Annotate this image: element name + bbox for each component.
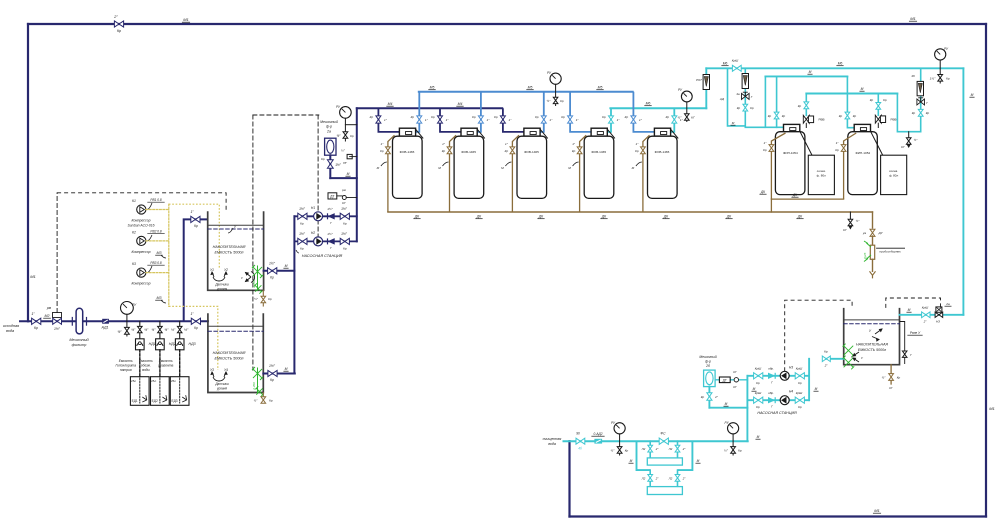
svg-text:НЗ: НЗ — [936, 320, 940, 324]
svg-text:Кр: Кр — [505, 149, 509, 153]
svg-text:Кр: Кр — [560, 99, 564, 103]
svg-text:воды: воды — [142, 368, 150, 372]
valve on rinse branch — [918, 109, 923, 116]
dashed automation pumps drop — [317, 115, 319, 241]
svg-text:М1: М1 — [30, 274, 36, 279]
svg-text:К1: К1 — [132, 199, 136, 203]
filter tank T4 riser diagonal — [607, 129, 614, 138]
svg-text:солев.: солев. — [817, 169, 826, 173]
tank C inlet valve — [822, 356, 830, 362]
valve on rotameter R2 branch — [743, 104, 748, 111]
filter tank T4 body — [584, 136, 614, 198]
level sensors tank C — [872, 329, 882, 341]
svg-text:КрШ: КрШ — [755, 391, 762, 395]
bag filter F2b outlet valve — [708, 387, 710, 408]
svg-text:К3: К3 — [132, 262, 136, 266]
svg-text:Мешочный: Мешочный — [699, 355, 716, 359]
label pump station 1 — [296, 250, 299, 253]
svg-text:очищенная: очищенная — [543, 437, 562, 441]
drain valve on cyan manifold gauge stem — [685, 114, 690, 120]
cyan outlet manifold — [610, 107, 706, 109]
svg-text:Кр: Кр — [270, 276, 274, 280]
filter tank T5 riser diagonal — [671, 129, 678, 138]
black arrow sensor tank A outlet — [246, 272, 255, 283]
tank C outlet line to softened header — [900, 314, 964, 316]
pump branch H1 pipe — [294, 215, 356, 217]
svg-text:КГ: КГ — [889, 386, 893, 390]
bag filter F1 capsule — [76, 308, 83, 334]
svg-text:Емкость: Емкость — [119, 359, 133, 363]
svg-text:ФИП-1054: ФИП-1054 — [783, 151, 798, 155]
storage tank A water level — [208, 224, 264, 226]
svg-text:У4: У4 — [224, 368, 228, 372]
filter tank T4 right feed drop — [607, 108, 611, 132]
svg-text:М: М — [347, 172, 350, 176]
svg-text:Н1: Н1 — [311, 206, 315, 210]
valved drop to softener S1 inlet — [776, 76, 778, 127]
softener drain collector brown — [771, 198, 843, 200]
dosing suction dashed line ND1 — [139, 350, 141, 377]
pump station 1 discharge header — [356, 108, 358, 241]
svg-text:SunSun ACO-016: SunSun ACO-016 — [127, 224, 154, 228]
valve on softener S2 inlet drop — [845, 112, 850, 119]
svg-text:КГ: КГ — [901, 145, 905, 149]
filter tank T2 riser diagonal — [477, 129, 484, 138]
svg-text:Кр: Кр — [926, 111, 930, 115]
svg-text:Кр: Кр — [431, 115, 435, 119]
svg-text:Кр: Кр — [870, 98, 874, 102]
drain valve on rinse line — [908, 132, 910, 138]
svg-text:Кр: Кр — [782, 114, 786, 118]
storage tank B walls — [208, 313, 263, 392]
svg-text:Кр: Кр — [635, 149, 639, 153]
UV bypass left drop — [637, 441, 651, 470]
softener S1 drain valve — [769, 145, 774, 152]
valve under gauge discharge header — [343, 132, 348, 139]
pressure gauge PI1 on main line — [121, 302, 134, 315]
svg-text:КГ: КГ — [691, 116, 695, 120]
svg-text:1½": 1½" — [341, 232, 348, 236]
flow sensor AD2 — [595, 439, 602, 443]
svg-text:Кр: Кр — [561, 115, 565, 119]
filter tank T3 right feed drop — [540, 92, 544, 132]
svg-text:Кр: Кр — [270, 378, 274, 382]
air line to tank A yellow dotted — [169, 204, 220, 268]
flow sensor AD1 on main line — [103, 319, 109, 323]
pump branch H1 check valve — [328, 213, 335, 219]
svg-text:рм: рм — [341, 188, 346, 192]
storage tank A walls — [208, 211, 264, 290]
UV bypass right drop — [678, 441, 693, 470]
UV1 inlet valve — [649, 441, 651, 458]
drain manifold right drop — [872, 212, 874, 228]
bag filter F2a outlet valve — [329, 155, 331, 178]
label M3 leader on riser — [161, 300, 166, 303]
svg-text:Н4: Н4 — [789, 390, 793, 394]
pump branch H2 suction valve — [298, 238, 307, 244]
bypass drop left of R2 — [728, 68, 746, 126]
svg-text:У1: У1 — [210, 268, 214, 272]
svg-text:Кр: Кр — [839, 114, 843, 118]
valve V1 raw water — [32, 318, 41, 324]
filter tank T2 right feed drop — [477, 92, 481, 132]
filter tank T1 left feed drop — [378, 108, 399, 132]
flow transmitter DT1 — [328, 193, 337, 199]
pump H2 — [314, 237, 323, 246]
svg-text:М: М — [568, 166, 571, 170]
pressure gauge on discharge header — [340, 107, 352, 119]
treated water valve — [576, 438, 585, 444]
softener S1 drain brown — [771, 133, 785, 199]
svg-text:НД3: НД3 — [189, 342, 196, 346]
storage tank C water level — [844, 319, 900, 321]
UV sterilizer unit 1 — [647, 458, 682, 465]
filter tank T1 left feed valve — [376, 116, 381, 123]
svg-text:М4: М4 — [388, 102, 393, 106]
storage tank C walls — [844, 308, 900, 365]
svg-text:М: М — [725, 402, 728, 406]
svg-text:ФОВ-1465: ФОВ-1465 — [461, 150, 476, 154]
svg-text:Кр: Кр — [572, 149, 576, 153]
svg-text:4а: 4а — [736, 92, 740, 96]
wire bypass top horizontal — [28, 23, 986, 25]
svg-text:НД1: НД1 — [149, 342, 156, 346]
svg-text:Кр: Кр — [34, 326, 38, 330]
svg-text:КрШ: КрШ — [732, 59, 739, 63]
svg-text:Компрессор: Компрессор — [132, 219, 151, 223]
svg-text:Кр: Кр — [535, 115, 539, 119]
filter tank T4 control head — [591, 128, 607, 136]
level switch sensor tank B — [211, 372, 227, 381]
filter tank T4 right feed valve — [609, 116, 614, 123]
filter tank T5 drain valve brown — [641, 147, 646, 154]
svg-text:ЕМКОСТЬ 5000л: ЕМКОСТЬ 5000л — [858, 348, 886, 352]
svg-text:Кр: Кр — [194, 224, 198, 228]
svg-text:1½": 1½" — [327, 232, 333, 236]
svg-text:4б: 4б — [578, 447, 582, 451]
pump station 2 suction header — [808, 359, 810, 400]
air header yellow dotted — [168, 204, 170, 306]
drain sampling valve brown — [870, 229, 875, 236]
svg-text:обезж.: обезж. — [141, 364, 151, 368]
svg-text:АД: АД — [719, 97, 725, 101]
air line K2 to tank B yellow dotted — [169, 306, 218, 370]
svg-text:КГ: КГ — [342, 201, 346, 205]
wire bypass right vertical — [985, 24, 987, 517]
svg-text:Кр: Кр — [625, 449, 629, 453]
svg-text:ЕД3: ЕД3 — [171, 399, 177, 403]
tank A drain valve brown — [262, 290, 264, 296]
svg-text:Гипохлорита: Гипохлорита — [115, 364, 136, 368]
filter tank T2 left feed valve — [438, 116, 443, 123]
compressor K2 — [137, 236, 146, 245]
softener S2 drain brown — [844, 133, 857, 199]
tank B outlet pipe — [263, 373, 295, 375]
svg-text:М: М — [630, 459, 633, 463]
pump branch H3 discharge valve — [754, 373, 763, 379]
pump branch H1 discharge valve — [340, 213, 349, 219]
filter tank T3 right feed valve — [541, 116, 546, 123]
pressure gauge on blue manifold — [550, 73, 561, 84]
dosing tank ED3 — [170, 377, 189, 406]
svg-text:реагента: реагента — [157, 364, 173, 368]
sample port on discharge header — [347, 154, 352, 158]
svg-text:Кр: Кр — [300, 221, 304, 225]
valve on bypass top line — [114, 21, 123, 27]
svg-text:Кр: Кр — [897, 376, 901, 380]
svg-text:НАСОСНАЯ СТАНЦИЯ: НАСОСНАЯ СТАНЦИЯ — [757, 411, 797, 415]
svg-text:Кр: Кр — [350, 134, 354, 138]
valve storage tank A inlet — [191, 216, 200, 222]
svg-text:Кр: Кр — [380, 149, 384, 153]
svg-text:Кр: Кр — [853, 114, 857, 118]
svg-text:РВВ: РВВ — [891, 118, 897, 122]
manifold A left drop to softener S1 — [765, 76, 783, 127]
pump branch H4 suction valve — [795, 397, 804, 403]
filter tank T4 left feed valve — [568, 116, 573, 123]
filter tank T4 backwash drain brown — [580, 135, 587, 212]
svg-text:М: М — [815, 387, 818, 391]
svg-text:ЕМКОСТЬ 5000л: ЕМКОСТЬ 5000л — [214, 357, 243, 361]
filter tank T1 right feed valve — [417, 116, 422, 123]
wire bypass left vertical — [27, 24, 29, 321]
label filter tank T5 drain — [636, 162, 642, 166]
filter tank T1 control head — [399, 128, 415, 136]
filter tank T5 left feed drop — [633, 92, 654, 132]
svg-text:НАКОПИТЕЛЬНАЯ: НАКОПИТЕЛЬНАЯ — [213, 351, 246, 355]
filter tank T3 left feed valve — [500, 116, 505, 123]
svg-text:М5: М5 — [528, 86, 533, 90]
pump H3 — [780, 371, 789, 380]
filter tank T2 control head — [461, 128, 477, 136]
svg-text:4б: 4б — [911, 74, 915, 78]
svg-text:1½": 1½" — [335, 163, 341, 167]
svg-text:рм: рм — [46, 306, 52, 310]
svg-text:Л2: Л2 — [668, 477, 673, 481]
svg-text:Емкость: Емкость — [139, 359, 153, 363]
pump branch H3 suction valve — [795, 373, 804, 379]
softener S2 brine line diagonal — [871, 131, 883, 155]
brown drain manifold — [388, 211, 873, 213]
tank B drain valve brown — [262, 393, 264, 397]
dashed control link tank C left — [785, 300, 852, 371]
svg-text:ПГ: ПГ — [343, 161, 347, 165]
UV2 inlet valve — [649, 470, 651, 487]
valve on softener top line — [732, 65, 741, 71]
svg-text:Кр: Кр — [750, 106, 754, 110]
softener S1 control head — [784, 124, 800, 132]
svg-text:Кр: Кр — [701, 395, 705, 399]
drain valve on blue manifold gauge stem — [553, 97, 558, 103]
svg-text:ф-р: ф-р — [705, 360, 711, 364]
svg-text:Кр: Кр — [117, 29, 121, 33]
svg-text:К2: К2 — [132, 231, 136, 235]
svg-text:1½": 1½" — [327, 207, 333, 211]
svg-text:Н2: Н2 — [311, 231, 315, 235]
riser to storage tank A — [184, 219, 208, 321]
svg-text:КрШ: КрШ — [796, 367, 803, 371]
level column tank C — [900, 322, 905, 365]
filter tank T4 left feed drop — [570, 92, 591, 132]
svg-text:Кр: Кр — [442, 149, 446, 153]
air line K3 yellow dotted — [146, 272, 169, 274]
svg-text:Кр: Кр — [666, 115, 670, 119]
filter tank T5 backwash drain brown — [643, 135, 650, 212]
softener drain down to manifold — [770, 199, 772, 212]
gauge on treated line right — [728, 423, 739, 434]
pump branch H2 discharge valve — [340, 238, 349, 244]
svg-text:Ду25: Ду25 — [863, 252, 867, 260]
bag filter F2b cyan — [704, 370, 716, 387]
svg-text:ЕД2: ЕД2 — [152, 399, 158, 403]
dosing suction dashed line ND3 — [179, 350, 181, 377]
pressure gauge on cyan manifold — [681, 91, 692, 102]
svg-text:ЕМКОСТЬ 5000л: ЕМКОСТЬ 5000л — [214, 251, 243, 255]
svg-text:Датчики: Датчики — [214, 382, 229, 386]
svg-text:Кр: Кр — [763, 148, 767, 152]
svg-text:НАКОПИТЕЛЬНАЯ: НАКОПИТЕЛЬНАЯ — [856, 343, 888, 347]
svg-text:Кр: Кр — [602, 115, 606, 119]
svg-text:Кр: Кр — [883, 98, 887, 102]
svg-text:Кр: Кр — [798, 405, 802, 409]
tank C inlet green marks — [843, 344, 855, 358]
manifold B drop to S1 control valve — [805, 94, 807, 116]
svg-text:М: М — [908, 308, 911, 312]
svg-text:уровня: уровня — [216, 387, 228, 391]
filter tank T5 left feed valve — [631, 116, 636, 123]
sampler outlet funnel — [872, 259, 874, 271]
svg-text:КГ: КГ — [733, 385, 737, 389]
label filter tank T3 drain — [505, 162, 511, 166]
svg-text:РОТ: РОТ — [696, 78, 702, 82]
svg-text:М: М — [377, 166, 380, 170]
valve storage tank B inlet — [191, 318, 200, 324]
manifold B drop to S2 control valve — [877, 94, 879, 116]
svg-text:М: М — [632, 166, 635, 170]
air line K1 yellow dotted — [146, 209, 169, 211]
svg-text:РВ1 0.8: РВ1 0.8 — [150, 198, 162, 202]
filter tank T5 control head — [654, 128, 670, 136]
svg-text:обр.: обр. — [768, 367, 774, 371]
floor drain valve black — [849, 212, 851, 219]
svg-text:М: М — [438, 166, 441, 170]
svg-text:Кр: Кр — [756, 381, 760, 385]
svg-text:Компрессор: Компрессор — [132, 250, 151, 254]
valve under gauge treated left — [617, 447, 622, 454]
svg-text:Н3: Н3 — [789, 365, 793, 369]
svg-text:солев.: солев. — [889, 169, 898, 173]
svg-text:НАКОПИТЕЛЬНАЯ: НАКОПИТЕЛЬНАЯ — [213, 245, 246, 249]
filter tank T2 right feed valve — [478, 116, 483, 123]
svg-text:М5: М5 — [430, 86, 435, 90]
svg-text:Мешочный: Мешочный — [69, 338, 89, 342]
pump branch H2 check valve — [328, 238, 335, 244]
softener S2 body — [848, 132, 878, 195]
UV2 outlet valve — [677, 470, 679, 487]
filter tank T5 right feed drop — [671, 108, 675, 132]
svg-text:КрШ: КрШ — [796, 391, 803, 395]
svg-text:Кр: Кр — [824, 350, 828, 354]
pump branch H3 pipe — [747, 375, 809, 377]
blue interstage manifold — [419, 91, 633, 93]
tank C outlet valve — [922, 312, 930, 318]
softener S1 brine line diagonal — [800, 131, 812, 155]
air line K2 yellow dotted — [146, 240, 169, 242]
svg-text:ЕД1: ЕД1 — [132, 399, 138, 403]
svg-text:Л2: Л2 — [668, 447, 673, 451]
pump H1 — [314, 212, 323, 221]
bag filter F2a — [325, 138, 336, 155]
compressor K3 — [137, 268, 146, 277]
filter tank T1 riser diagonal — [416, 129, 423, 138]
green level gauge tank A — [252, 265, 263, 278]
filter tank T3 left feed drop — [503, 108, 524, 132]
bag filter F2a outlet run — [330, 177, 357, 179]
storage tank B water level — [208, 325, 263, 327]
svg-text:ФИП-1054: ФИП-1054 — [855, 151, 870, 155]
svg-text:РВВ: РВВ — [819, 118, 825, 122]
svg-text:Кр: Кр — [737, 106, 741, 110]
svg-text:исходная: исходная — [3, 324, 19, 328]
svg-text:М3: М3 — [157, 251, 162, 255]
tank A outlet valve — [268, 268, 277, 274]
level switch sensor tank A — [211, 272, 227, 281]
drain valve under gauge PI1 — [126, 321, 128, 336]
filter tank T1 right feed drop — [416, 92, 420, 132]
pump branch H3 check valve — [768, 373, 775, 379]
main line isolation valve between UV taps — [659, 438, 668, 444]
svg-text:ФОВ-1465: ФОВ-1465 — [524, 150, 539, 154]
UV1 outlet valve — [677, 441, 679, 458]
svg-text:Емкость: Емкость — [159, 359, 173, 363]
filter tank T3 riser diagonal — [540, 129, 547, 138]
svg-text:М: М — [757, 435, 760, 439]
pump branch H1 suction valve — [298, 213, 307, 219]
dashed control box tank C right — [886, 298, 941, 308]
svg-text:1½": 1½" — [930, 77, 936, 81]
svg-text:25л: 25л — [131, 379, 136, 383]
softener S2 control head — [854, 124, 870, 132]
svg-text:Кр: Кр — [321, 157, 325, 161]
valve under gauge top line — [938, 75, 943, 82]
brine tank S1 — [808, 155, 834, 194]
svg-text:2а: 2а — [945, 302, 950, 306]
svg-text:Л2: Л2 — [641, 447, 646, 451]
softener inlet manifold A — [765, 75, 847, 77]
hand valve on rinse branch — [917, 98, 925, 105]
label filter tank T1 drain — [381, 162, 387, 166]
filter tank T1 drain valve brown — [386, 147, 391, 154]
svg-text:М: М — [285, 264, 288, 268]
svg-text:1½": 1½" — [54, 327, 61, 331]
pump station 1 suction header — [293, 216, 295, 373]
filter tank T2 body — [454, 136, 484, 198]
filter tank T3 body — [517, 136, 547, 198]
svg-text:Кр: Кр — [768, 114, 772, 118]
svg-text:М6: М6 — [723, 62, 728, 66]
svg-text:2.350: 2.350 — [252, 382, 256, 391]
filter tank T5 right feed valve — [672, 116, 677, 123]
filter tank T3 control head — [524, 128, 540, 136]
svg-text:Кр: Кр — [268, 297, 272, 301]
pump H4 — [780, 396, 789, 405]
wire bypass bottom horizontal — [570, 515, 987, 517]
svg-text:уровня: уровня — [216, 287, 228, 291]
filter tank T2 drain valve brown — [447, 147, 452, 154]
rotameter R3 rinse branch — [920, 68, 922, 131]
svg-text:ф. 80л: ф. 80л — [889, 174, 898, 178]
svg-text:Кр: Кр — [343, 221, 347, 225]
